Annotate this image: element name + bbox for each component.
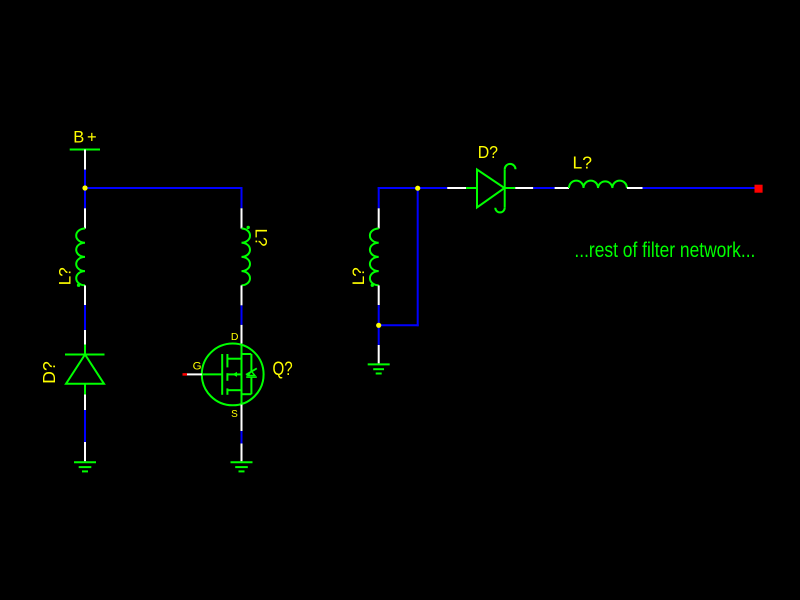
inductor L3 (middle) bbox=[370, 208, 379, 305]
gate lead internal bbox=[202, 373, 222, 375]
wire D1 to ground bbox=[84, 410, 86, 442]
svg-text:Q?: Q? bbox=[273, 359, 293, 380]
wire B+ to node A bbox=[84, 170, 86, 209]
diode D1 (left) bbox=[65, 330, 105, 410]
unconnected pin cue (red) bbox=[183, 373, 188, 376]
svg-text:S: S bbox=[231, 409, 238, 420]
wire mid rail bbox=[378, 187, 418, 189]
inductor L4 (horizontal) bbox=[555, 181, 643, 188]
svg-text:...rest of filter network...: ...rest of filter network... bbox=[574, 239, 755, 262]
ground (middle) bbox=[368, 345, 390, 374]
svg-text:L?: L? bbox=[56, 267, 75, 285]
wire rail to L2 bbox=[241, 187, 243, 208]
wire loop horizontal bbox=[378, 324, 419, 326]
wire L4 to output bbox=[643, 187, 755, 189]
wire Q1 source to ground bbox=[241, 431, 243, 444]
ground (left) bbox=[74, 442, 96, 471]
svg-text:L?: L? bbox=[251, 229, 270, 247]
gate bar bbox=[221, 354, 223, 395]
node A junction dot bbox=[82, 185, 87, 190]
svg-text:L?: L? bbox=[349, 267, 368, 285]
net endpoint marker (red) bbox=[755, 185, 763, 193]
svg-text:D?: D? bbox=[39, 361, 59, 384]
node C junction dot bbox=[376, 323, 381, 328]
wire D2 to L4 bbox=[533, 187, 554, 189]
wire node A to L2 drain rail bbox=[85, 187, 243, 189]
svg-text:D: D bbox=[231, 331, 239, 343]
channel segments bbox=[226, 354, 228, 367]
inductor L2 (right, mirrored) bbox=[242, 208, 251, 305]
wire loop vertical bbox=[417, 187, 419, 326]
wire down to L3 bbox=[378, 187, 380, 208]
ground (under Q1) bbox=[231, 444, 253, 472]
drain internal bbox=[241, 344, 243, 405]
diode D2 (Schottky) bbox=[447, 164, 533, 213]
bulk arrow bbox=[232, 372, 237, 377]
wire L3 to ground with node C bbox=[378, 305, 380, 345]
gate pin bbox=[187, 373, 202, 375]
source pin bbox=[241, 405, 243, 431]
svg-text:D?: D? bbox=[478, 142, 499, 162]
body diode branch bbox=[242, 353, 252, 355]
wire L2 to Q1 drain bbox=[241, 305, 243, 325]
inductor L1 (left) bbox=[76, 208, 85, 305]
wire node B to D2 bbox=[418, 187, 448, 189]
node B junction dot bbox=[415, 186, 420, 191]
svg-text:G: G bbox=[193, 361, 202, 373]
transistor Q1 (power MOSFET with body diode) bbox=[183, 325, 264, 431]
stubs bbox=[227, 358, 241, 360]
svg-text:L?: L? bbox=[573, 152, 593, 172]
wire L1 to D1 bbox=[84, 305, 86, 330]
power symbol B+ bbox=[70, 129, 100, 170]
